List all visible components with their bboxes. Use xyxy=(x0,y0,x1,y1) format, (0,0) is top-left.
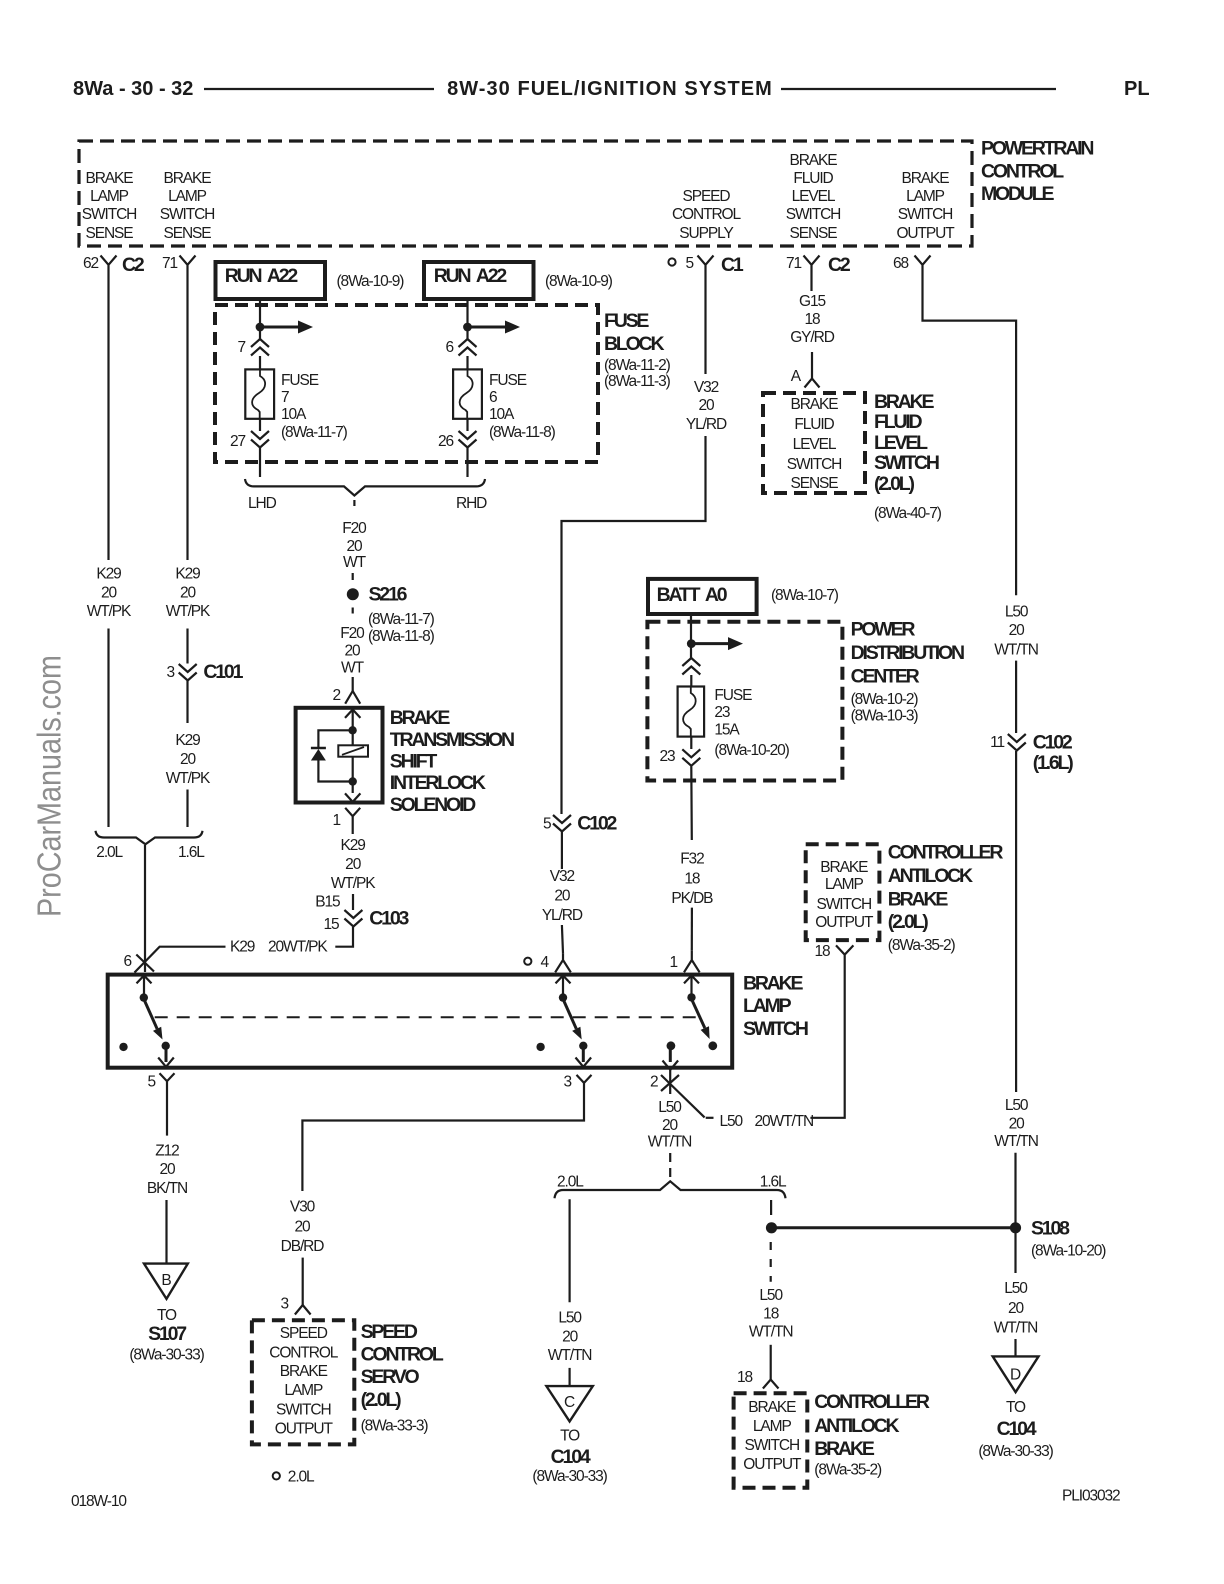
connector pin 2 solenoid xyxy=(345,691,360,704)
svg-text:TO: TO xyxy=(1006,1399,1026,1416)
svg-text:6: 6 xyxy=(489,389,497,406)
svg-text:L50: L50 xyxy=(558,1309,582,1326)
svg-text:20: 20 xyxy=(662,1117,679,1134)
svg-text:20: 20 xyxy=(346,538,363,555)
svg-text:CONTROL: CONTROL xyxy=(672,206,742,223)
svg-text:SENSE: SENSE xyxy=(789,225,837,242)
svg-text:G15: G15 xyxy=(799,293,825,310)
switch pole 3 exit arrowhead xyxy=(663,1061,679,1070)
svg-text:20: 20 xyxy=(345,856,362,873)
svg-text:S108: S108 xyxy=(1031,1218,1070,1240)
svg-text:SWITCH: SWITCH xyxy=(82,206,137,223)
PCM pin label brake fluid level switch sense xyxy=(786,152,841,242)
header rule right xyxy=(781,88,1056,90)
watermark ProCarManuals.com xyxy=(31,655,68,917)
svg-text:3: 3 xyxy=(166,664,174,681)
svg-text:2: 2 xyxy=(332,687,340,704)
svg-text:CENTER: CENTER xyxy=(851,665,920,687)
svg-text:BRAKE: BRAKE xyxy=(888,888,949,910)
svg-text:F32: F32 xyxy=(680,850,704,867)
wire into solenoid pin 2 xyxy=(352,677,354,691)
switch pole 2 NC contact dot xyxy=(536,1043,544,1051)
connector pin 18 CAB 1.6L xyxy=(763,1380,779,1389)
svg-text:BRAKE: BRAKE xyxy=(280,1363,328,1380)
svg-text:LEVEL: LEVEL xyxy=(793,436,837,453)
svg-text:LAMP: LAMP xyxy=(90,188,129,205)
wire dash below S216 xyxy=(352,608,354,614)
solenoid coil xyxy=(338,745,368,756)
wire V30 from pin 3 xyxy=(302,1090,584,1191)
switch pole 3 wire xyxy=(690,976,692,998)
svg-text:C103: C103 xyxy=(369,908,409,930)
svg-text:FUSE: FUSE xyxy=(281,372,319,389)
splice S216 xyxy=(347,584,408,606)
svg-text:ANTILOCK: ANTILOCK xyxy=(814,1415,899,1437)
svg-text:20: 20 xyxy=(344,643,361,660)
svg-text:WT/TN: WT/TN xyxy=(548,1347,592,1364)
wire to 1.6L brace xyxy=(186,790,188,828)
svg-text:SOLENOID: SOLENOID xyxy=(390,794,476,816)
wire dash above S216 xyxy=(352,573,354,580)
svg-text:20: 20 xyxy=(1008,1300,1025,1317)
svg-text:D: D xyxy=(1010,1367,1021,1384)
svg-text:F20: F20 xyxy=(340,625,365,642)
wire 2.0L branch to symbol C xyxy=(568,1199,570,1302)
L50 label CAB 1.6L branch xyxy=(749,1287,793,1340)
svg-text:5: 5 xyxy=(147,1074,155,1091)
dashed wire below left S108 dot xyxy=(770,1242,772,1282)
svg-text:C104: C104 xyxy=(551,1446,591,1468)
svg-text:71: 71 xyxy=(162,255,178,272)
connector chevrons pin 23 xyxy=(682,749,700,766)
svg-text:1.6L: 1.6L xyxy=(178,844,205,861)
svg-text:LAMP: LAMP xyxy=(753,1418,792,1435)
wire fuse 7 output xyxy=(259,419,261,431)
svg-text:2: 2 xyxy=(650,1074,658,1091)
L50 label D branch xyxy=(994,1280,1038,1336)
to C104 label right xyxy=(978,1399,1053,1460)
fuse 7 symbol xyxy=(245,369,274,418)
svg-text:SWITCH: SWITCH xyxy=(276,1401,331,1418)
svg-text:PLI03032: PLI03032 xyxy=(1062,1488,1120,1505)
power distribution center dashed box xyxy=(647,622,842,781)
brake fluid level switch dashed box xyxy=(763,393,865,493)
PCM label xyxy=(981,138,1093,206)
connector chevrons pin 6 xyxy=(459,339,477,356)
svg-text:CONTROL: CONTROL xyxy=(269,1344,339,1361)
svg-text:CONTROLLER: CONTROLLER xyxy=(814,1391,930,1413)
switch pole 1 moving contact arrow xyxy=(144,999,163,1040)
svg-text:6: 6 xyxy=(445,339,453,356)
svg-text:TRANSMISSION: TRANSMISSION xyxy=(390,729,514,751)
wire G15 from pin C2 xyxy=(810,273,812,291)
solenoid node dot top xyxy=(348,726,356,734)
svg-text:(8Wa-11-8): (8Wa-11-8) xyxy=(368,628,435,645)
svg-text:OUTPUT: OUTPUT xyxy=(896,225,955,242)
svg-text:(8Wa-11-7): (8Wa-11-7) xyxy=(368,611,435,628)
switch pole 3 output wire xyxy=(669,1047,672,1062)
svg-text:S107: S107 xyxy=(148,1323,186,1345)
svg-text:LAMP: LAMP xyxy=(168,188,207,205)
wire K29 left branch lower xyxy=(107,629,109,828)
off-page symbol C xyxy=(546,1386,592,1421)
connector pin 71 C2 xyxy=(786,254,851,276)
L50 label upper right xyxy=(994,604,1038,659)
connector chevrons pin 27 xyxy=(251,431,269,448)
solenoid label xyxy=(390,707,514,816)
wire Z12 from pin 5 xyxy=(166,1089,168,1136)
svg-text:K29: K29 xyxy=(175,732,200,749)
svg-text:23: 23 xyxy=(659,748,675,765)
wire BATT into PDC xyxy=(690,614,692,658)
L50 label C branch xyxy=(548,1309,592,1363)
svg-text:20WT/TN: 20WT/TN xyxy=(755,1113,814,1130)
svg-text:F20: F20 xyxy=(342,520,367,537)
servo pin label text xyxy=(269,1325,339,1437)
svg-text:GY/RD: GY/RD xyxy=(790,329,834,346)
node dot fuse 23 feed xyxy=(687,639,696,648)
wire 2.0L/1.6L common down to pin 6 xyxy=(144,845,146,972)
svg-text:20: 20 xyxy=(159,1161,176,1178)
L50 label mid right xyxy=(994,1097,1038,1150)
controller antilock brake 1.6L label xyxy=(814,1391,930,1478)
switch pole 1 NC contact dot xyxy=(119,1043,127,1051)
fuse 7 value label xyxy=(281,372,348,441)
controller antilock brake 2.0L label xyxy=(888,841,1004,954)
BATT A0 box xyxy=(648,579,757,614)
svg-text:(2.0L): (2.0L) xyxy=(888,911,929,933)
wire K29 right branch (71) xyxy=(186,273,188,560)
header rule left xyxy=(204,88,434,90)
svg-text:L50: L50 xyxy=(759,1287,783,1304)
connector C102 pin 5 xyxy=(543,813,618,835)
controller antilock brake 2.0L dashed box xyxy=(806,844,880,940)
svg-text:1: 1 xyxy=(332,812,340,829)
brace 2.0L/1.6L split bottom xyxy=(555,1181,786,1198)
svg-text:INTERLOCK: INTERLOCK xyxy=(390,772,486,794)
node dot fuse 7 feed xyxy=(256,323,265,332)
svg-text:RUN A22: RUN A22 xyxy=(225,265,299,287)
wire L50 from pin 68 xyxy=(923,273,1017,595)
brake transmission shift interlock solenoid box xyxy=(296,708,383,803)
svg-text:FUSE: FUSE xyxy=(714,687,752,704)
svg-text:TO: TO xyxy=(157,1307,177,1324)
svg-text:BRAKE: BRAKE xyxy=(820,859,868,876)
svg-text:WT/PK: WT/PK xyxy=(331,875,376,892)
to S107 label xyxy=(129,1307,204,1364)
fuse 6 symbol xyxy=(453,369,482,418)
svg-text:20: 20 xyxy=(180,751,197,768)
dashed wire 1.6L branch to S108 xyxy=(770,1200,772,1222)
switch pole 2 wire xyxy=(562,976,564,998)
wire into fuse 6 xyxy=(466,356,468,370)
solenoid internal wire top xyxy=(352,710,354,746)
switch pole 1 output contact dot xyxy=(162,1042,170,1050)
connector pin 71 C101-side xyxy=(162,255,196,273)
svg-text:LAMP: LAMP xyxy=(743,995,792,1017)
svg-text:BRAKE: BRAKE xyxy=(743,973,804,995)
svg-text:L50: L50 xyxy=(1004,1280,1028,1297)
svg-text:(8Wa-11-2): (8Wa-11-2) xyxy=(604,357,671,374)
svg-text:(8Wa-30-33): (8Wa-30-33) xyxy=(978,1443,1053,1460)
svg-text:1.6L: 1.6L xyxy=(760,1173,787,1190)
connector C103 chevrons xyxy=(344,908,409,930)
svg-text:LHD: LHD xyxy=(248,495,277,512)
switch pole 2 output contact dot xyxy=(579,1042,587,1050)
svg-text:15A: 15A xyxy=(714,722,740,739)
switch pole 3 moving contact arrow xyxy=(692,999,710,1039)
svg-text:L50: L50 xyxy=(658,1099,682,1116)
svg-text:SPEED: SPEED xyxy=(361,1321,418,1343)
svg-text:LEVEL: LEVEL xyxy=(874,432,928,454)
svg-text:7: 7 xyxy=(281,389,289,406)
wire K29 below solenoid xyxy=(352,824,354,835)
connector C102 (1.6L) xyxy=(990,732,1073,775)
connector pin A xyxy=(805,379,820,388)
K29 label left branch xyxy=(87,566,132,621)
svg-text:18: 18 xyxy=(684,870,700,887)
svg-text:Z12: Z12 xyxy=(155,1142,179,1159)
svg-text:018W-10: 018W-10 xyxy=(71,1493,127,1510)
wire C103 to K29 run xyxy=(335,894,353,947)
wire from CAB 2.0L pin 18 xyxy=(810,962,844,1118)
svg-text:C104: C104 xyxy=(997,1418,1037,1440)
svg-text:1: 1 xyxy=(669,954,677,971)
switch pole 1 output wire xyxy=(165,1047,168,1062)
svg-text:(8Wa-10-3): (8Wa-10-3) xyxy=(851,707,919,724)
svg-text:WT: WT xyxy=(343,554,367,571)
svg-text:20WT/PK: 20WT/PK xyxy=(268,939,328,956)
svg-text:(8Wa-11-3): (8Wa-11-3) xyxy=(604,373,671,390)
svg-text:68: 68 xyxy=(893,255,909,272)
speed control servo dashed box xyxy=(252,1320,354,1444)
svg-text:YL/RD: YL/RD xyxy=(542,907,583,924)
svg-text:10A: 10A xyxy=(281,406,307,423)
svg-text:SWITCH: SWITCH xyxy=(874,452,939,474)
svg-text:OUTPUT: OUTPUT xyxy=(815,914,874,931)
svg-text:WT/TN: WT/TN xyxy=(648,1134,692,1151)
L50 20WT/TN inline label xyxy=(720,1113,814,1130)
switch pole 2 output wire xyxy=(582,1047,585,1062)
pin 6 crossing tick xyxy=(136,955,154,972)
svg-text:SWITCH: SWITCH xyxy=(786,206,841,223)
svg-text:27: 27 xyxy=(230,433,246,450)
pin 4 connector above switch xyxy=(524,953,571,972)
wire below C102 xyxy=(561,832,563,869)
pin 3 connector below switch xyxy=(563,1074,591,1091)
svg-text:BK/TN: BK/TN xyxy=(147,1180,187,1197)
powertrain control module box xyxy=(79,141,972,246)
svg-text:18: 18 xyxy=(763,1305,779,1322)
switch pole 2 exit arrowhead xyxy=(576,1058,592,1067)
off-page symbol D xyxy=(993,1356,1039,1392)
svg-text:WT/TN: WT/TN xyxy=(749,1323,793,1340)
svg-text:18: 18 xyxy=(814,943,830,960)
wire V32 from pin C1 xyxy=(704,273,706,374)
svg-text:8Wa - 30 - 32: 8Wa - 30 - 32 xyxy=(73,78,193,100)
svg-text:(8Wa-35-2): (8Wa-35-2) xyxy=(888,937,956,954)
switch pole 1 entry arrowhead xyxy=(137,976,152,984)
power distribution center label xyxy=(851,619,964,725)
svg-text:BRAKE: BRAKE xyxy=(789,152,837,169)
S108 bus wire xyxy=(772,1226,1016,1229)
PCM pin label brake lamp switch sense 1 xyxy=(82,170,137,242)
solenoid node dot bottom xyxy=(349,777,357,785)
speed control servo label xyxy=(361,1321,444,1435)
svg-text:SPEED: SPEED xyxy=(280,1325,328,1342)
svg-text:11: 11 xyxy=(990,734,1004,751)
svg-text:20: 20 xyxy=(562,1329,579,1346)
wire G15 to pin A xyxy=(811,352,813,378)
switch pole 3 NO contact dot xyxy=(708,1041,717,1050)
svg-text:SWITCH: SWITCH xyxy=(817,896,872,913)
wire L50 to C102 1.6L xyxy=(1015,661,1017,733)
svg-text:ANTILOCK: ANTILOCK xyxy=(888,865,973,887)
pin 2 connector below switch xyxy=(650,1070,679,1095)
svg-text:20: 20 xyxy=(1009,1115,1026,1132)
svg-text:SENSE: SENSE xyxy=(85,225,133,242)
svg-text:PK/DB: PK/DB xyxy=(671,890,713,907)
brace 2.0L/1.6L join left xyxy=(96,831,203,845)
arrow fuse 23 feed xyxy=(695,637,743,650)
K29 20WT/PK inline labels xyxy=(230,939,328,956)
svg-text:3: 3 xyxy=(280,1296,288,1313)
fuse 23 symbol xyxy=(678,687,705,737)
svg-text:B: B xyxy=(161,1272,171,1289)
arrow fuse 6 feed xyxy=(471,321,520,334)
svg-text:PL: PL xyxy=(1124,78,1150,100)
connector pin 62 C2 xyxy=(83,254,145,276)
switch pole 1 common dot xyxy=(140,993,148,1001)
solenoid internal wire bottom xyxy=(352,757,354,793)
splice dot left S108 xyxy=(766,1222,777,1233)
F20 label upper xyxy=(342,520,367,571)
wire below C102 1.6L xyxy=(1015,751,1017,1092)
wire F20 dashed splice feed xyxy=(353,500,355,506)
svg-text:20: 20 xyxy=(180,585,197,602)
K29 label below solenoid xyxy=(331,837,376,892)
wire Z12 to ground symbol B xyxy=(165,1200,167,1264)
svg-text:WT/TN: WT/TN xyxy=(994,1133,1038,1150)
svg-text:10A: 10A xyxy=(489,406,515,423)
switch pole 2 common dot xyxy=(559,993,567,1001)
svg-text:ProCarManuals.com: ProCarManuals.com xyxy=(31,655,68,917)
switch pole 3 entry arrowhead xyxy=(684,976,699,984)
svg-text:WT/PK: WT/PK xyxy=(166,770,211,787)
svg-text:POWERTRAIN: POWERTRAIN xyxy=(981,138,1093,160)
svg-text:OUTPUT: OUTPUT xyxy=(743,1456,802,1473)
F32 label xyxy=(671,850,713,906)
Z12 label xyxy=(147,1142,187,1197)
connector pin 5 C1 xyxy=(668,254,743,276)
svg-text:20: 20 xyxy=(101,585,118,602)
to C104 label left xyxy=(532,1428,607,1485)
svg-text:OUTPUT: OUTPUT xyxy=(275,1420,334,1437)
svg-text:SHIFT: SHIFT xyxy=(390,750,438,772)
arrow fuse 7 feed xyxy=(264,321,313,334)
node dot fuse 6 feed xyxy=(463,323,472,332)
wire RUN A22-2 into fuse block xyxy=(466,297,468,339)
svg-text:FLUID: FLUID xyxy=(794,416,834,433)
svg-text:BRAKE: BRAKE xyxy=(163,170,211,187)
svg-text:DISTRIBUTION: DISTRIBUTION xyxy=(851,642,964,664)
svg-text:(8Wa-10-2): (8Wa-10-2) xyxy=(851,691,919,708)
svg-text:TO: TO xyxy=(560,1428,580,1445)
connector pin 18 CAB 2.0L xyxy=(836,945,853,962)
PCM pin label brake lamp switch output xyxy=(896,170,955,242)
svg-text:SWITCH: SWITCH xyxy=(743,1018,808,1040)
svg-text:BRAKE: BRAKE xyxy=(874,391,935,413)
svg-text:(8Wa-10-20): (8Wa-10-20) xyxy=(714,742,789,759)
svg-text:SENSE: SENSE xyxy=(163,225,211,242)
fuse block label xyxy=(604,310,671,390)
switch pole 3 output contact dot xyxy=(667,1041,676,1050)
svg-text:LAMP: LAMP xyxy=(906,188,945,205)
wire to symbol C xyxy=(568,1368,570,1386)
svg-text:S216: S216 xyxy=(369,584,408,606)
solenoid bottom arrowhead xyxy=(345,793,360,802)
brace LHD/RHD join xyxy=(245,479,485,496)
svg-text:WT/PK: WT/PK xyxy=(166,603,211,620)
brake lamp switch box xyxy=(108,975,733,1068)
wire RUN A22-1 into fuse block xyxy=(259,297,261,339)
svg-text:L50: L50 xyxy=(1005,1097,1029,1114)
connector C101 xyxy=(166,661,243,683)
svg-text:3: 3 xyxy=(563,1074,571,1091)
wire below S108 to symbol D xyxy=(1014,1233,1016,1273)
svg-text:(8Wa-35-2): (8Wa-35-2) xyxy=(814,1461,882,1478)
V32 label lower xyxy=(542,868,583,924)
svg-text:SUPPLY: SUPPLY xyxy=(679,225,733,242)
connector pin 3 servo xyxy=(295,1305,311,1315)
wire F32 to switch pin 1 xyxy=(691,908,693,951)
svg-text:K29: K29 xyxy=(96,566,121,583)
svg-text:(8Wa-33-3): (8Wa-33-3) xyxy=(361,1418,429,1435)
wire into C101 xyxy=(186,629,188,664)
svg-text:V32: V32 xyxy=(550,868,575,885)
RUN A22 box 2 xyxy=(424,262,534,299)
svg-text:FUSE: FUSE xyxy=(604,310,649,332)
svg-text:18: 18 xyxy=(737,1369,753,1386)
svg-text:LAMP: LAMP xyxy=(284,1382,323,1399)
svg-text:71: 71 xyxy=(786,255,802,272)
svg-text:(2.0L): (2.0L) xyxy=(361,1389,402,1411)
K29 label right branch xyxy=(166,566,211,621)
switch pole 1 exit arrowhead xyxy=(158,1058,174,1067)
wire V32 jog to C102 xyxy=(562,436,706,814)
svg-text:20: 20 xyxy=(1009,622,1026,639)
svg-text:SWITCH: SWITCH xyxy=(160,206,215,223)
svg-text:7: 7 xyxy=(237,339,245,356)
wire K29 run to pin 6 xyxy=(135,947,226,973)
svg-text:YL/RD: YL/RD xyxy=(686,416,727,433)
svg-text:(8Wa-30-33): (8Wa-30-33) xyxy=(532,1468,607,1485)
connector pin 1 solenoid xyxy=(345,808,360,824)
svg-text:C2: C2 xyxy=(828,254,851,276)
svg-text:L50: L50 xyxy=(720,1113,744,1130)
svg-text:V32: V32 xyxy=(694,379,719,396)
svg-text:(1.6L): (1.6L) xyxy=(1033,752,1074,774)
brake fluid level switch pin text xyxy=(787,396,842,492)
diode D1 xyxy=(311,748,326,761)
switch pole 2 moving contact arrow xyxy=(563,999,582,1040)
fuse 6 value label xyxy=(489,372,556,441)
PCM pin label speed control supply xyxy=(672,188,742,242)
svg-text:2.0L: 2.0L xyxy=(96,844,123,861)
svg-text:LAMP: LAMP xyxy=(825,876,864,893)
svg-text:6: 6 xyxy=(123,953,131,970)
svg-text:RHD: RHD xyxy=(456,495,487,512)
